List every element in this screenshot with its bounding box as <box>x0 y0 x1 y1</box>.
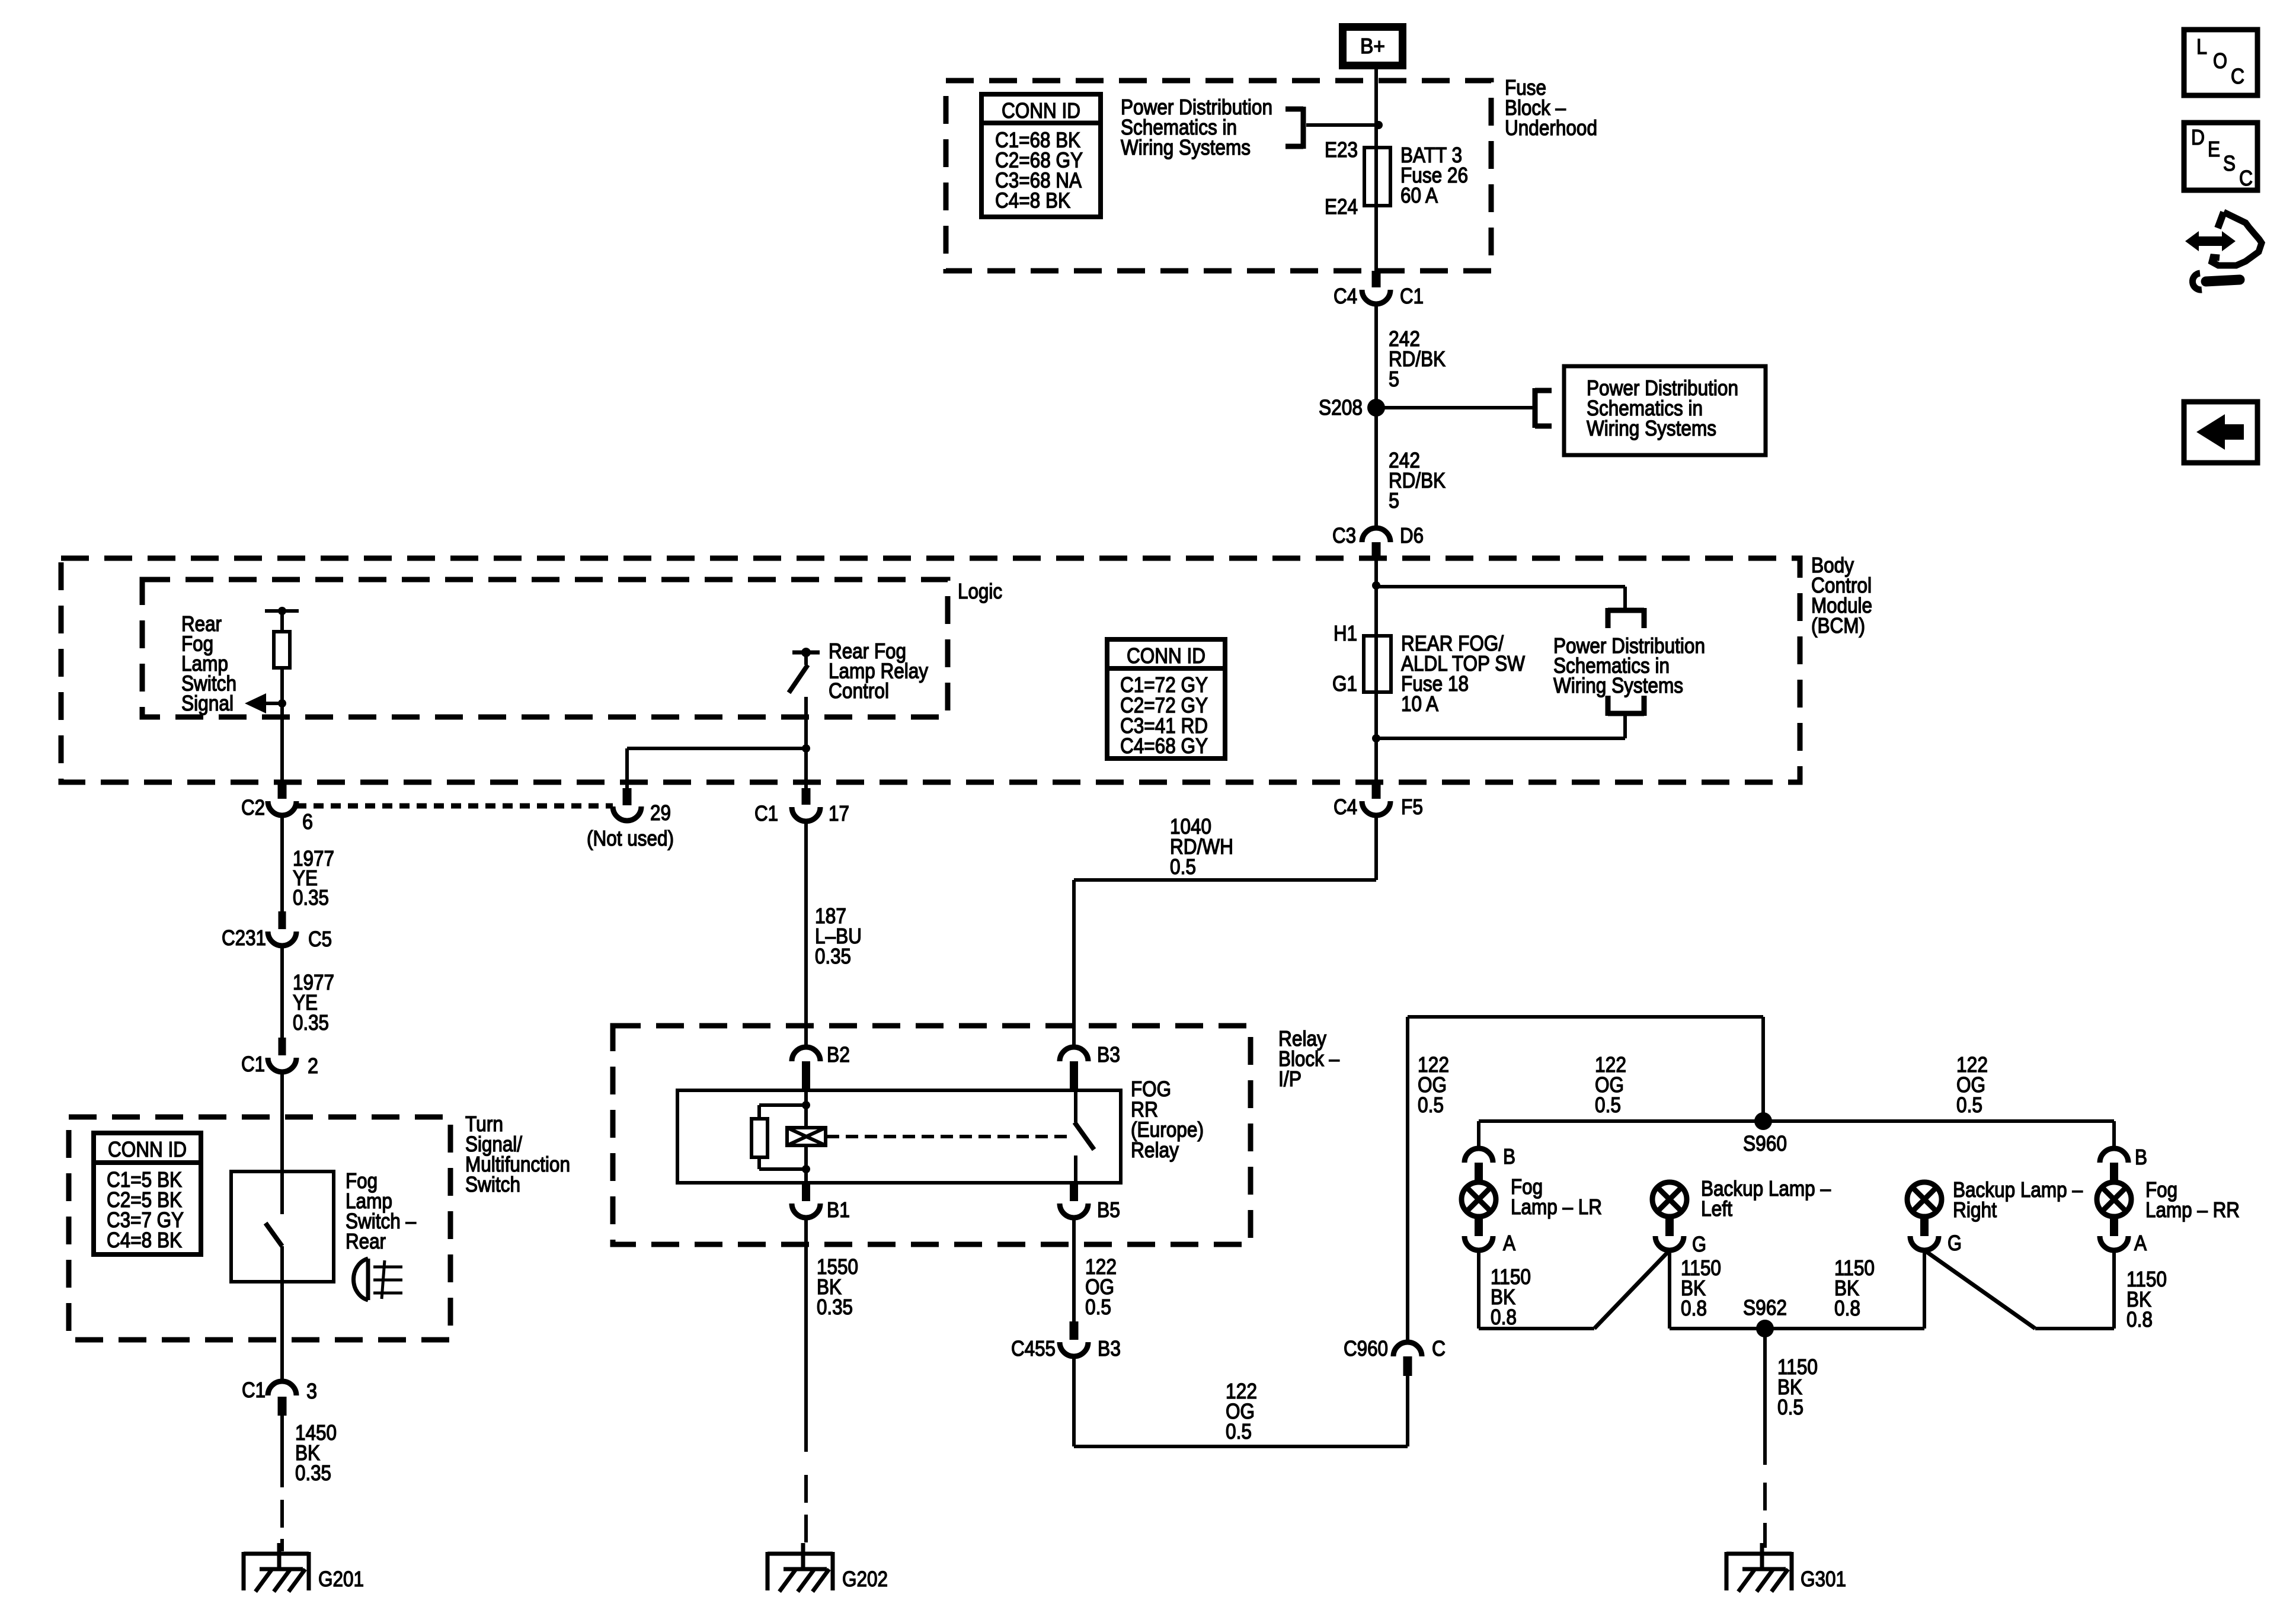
svg-text:G: G <box>1948 1231 1962 1255</box>
svg-text:Right: Right <box>1953 1198 1997 1222</box>
svg-text:B2: B2 <box>827 1042 850 1067</box>
svg-text:(BCM): (BCM) <box>1811 613 1865 638</box>
svg-text:F5: F5 <box>1401 795 1423 819</box>
svg-text:C4=8 BK: C4=8 BK <box>107 1228 182 1252</box>
svg-text:C4=68 GY: C4=68 GY <box>1120 734 1208 758</box>
svg-text:Wiring Systems: Wiring Systems <box>1553 673 1683 697</box>
svg-text:G: G <box>1692 1232 1706 1256</box>
svg-text:B: B <box>2135 1145 2147 1169</box>
svg-text:B+: B+ <box>1360 34 1385 58</box>
svg-text:Underhood: Underhood <box>1505 116 1597 140</box>
svg-text:CONN ID: CONN ID <box>108 1137 187 1161</box>
svg-text:C1: C1 <box>241 1052 265 1076</box>
svg-text:L: L <box>2196 34 2207 59</box>
svg-text:C1: C1 <box>242 1378 266 1402</box>
svg-text:C4: C4 <box>1334 795 1357 819</box>
svg-text:0.8: 0.8 <box>1681 1296 1707 1320</box>
svg-text:S208: S208 <box>1319 395 1363 420</box>
svg-text:0.8: 0.8 <box>1834 1296 1860 1320</box>
svg-text:Wiring Systems: Wiring Systems <box>1587 416 1716 440</box>
svg-text:C1: C1 <box>754 801 778 825</box>
svg-text:D: D <box>2191 125 2205 149</box>
svg-text:C: C <box>2239 166 2253 190</box>
svg-text:G1: G1 <box>1332 671 1357 696</box>
svg-text:C4=8 BK: C4=8 BK <box>995 188 1070 213</box>
svg-text:C2: C2 <box>241 795 265 820</box>
svg-text:A: A <box>1503 1231 1515 1255</box>
svg-text:C: C <box>1432 1336 1446 1361</box>
svg-text:Control: Control <box>829 678 889 703</box>
svg-text:D6: D6 <box>1400 523 1424 548</box>
svg-text:0.5: 0.5 <box>1418 1093 1444 1117</box>
svg-text:G201: G201 <box>318 1567 364 1591</box>
svg-text:0.8: 0.8 <box>2126 1307 2153 1331</box>
svg-text:C960: C960 <box>1344 1336 1388 1361</box>
svg-text:0.5: 0.5 <box>1956 1093 1982 1117</box>
svg-text:C231: C231 <box>222 926 266 950</box>
svg-text:Lamp – LR: Lamp – LR <box>1511 1195 1602 1219</box>
svg-text:E24: E24 <box>1325 194 1358 219</box>
svg-text:3: 3 <box>306 1379 317 1403</box>
svg-text:5: 5 <box>1389 488 1399 513</box>
svg-text:C1: C1 <box>1400 284 1424 308</box>
svg-text:Rear: Rear <box>346 1229 386 1253</box>
svg-text:B3: B3 <box>1097 1042 1120 1067</box>
svg-text:Switch: Switch <box>465 1172 520 1196</box>
svg-text:0.5: 0.5 <box>1085 1295 1111 1319</box>
svg-text:0.35: 0.35 <box>293 885 329 910</box>
svg-text:C3: C3 <box>1332 523 1356 548</box>
svg-text:0.5: 0.5 <box>1595 1093 1621 1117</box>
svg-text:H1: H1 <box>1334 621 1357 645</box>
svg-text:Signal: Signal <box>181 691 234 715</box>
svg-text:6: 6 <box>302 809 313 834</box>
svg-text:A: A <box>2134 1231 2147 1255</box>
svg-text:B: B <box>1503 1144 1515 1169</box>
svg-text:10 A: 10 A <box>1401 692 1438 716</box>
svg-text:Logic: Logic <box>958 579 1002 603</box>
svg-text:S: S <box>2223 151 2236 175</box>
svg-text:C5: C5 <box>308 927 332 951</box>
svg-text:(Not used): (Not used) <box>587 826 674 850</box>
svg-text:Lamp – RR: Lamp – RR <box>2145 1198 2240 1222</box>
svg-text:2: 2 <box>308 1054 318 1078</box>
svg-text:0.5: 0.5 <box>1226 1419 1252 1443</box>
svg-text:G301: G301 <box>1801 1567 1846 1591</box>
svg-text:0.8: 0.8 <box>1491 1305 1517 1329</box>
svg-text:Wiring Systems: Wiring Systems <box>1121 135 1251 159</box>
svg-text:G202: G202 <box>842 1567 888 1591</box>
svg-text:17: 17 <box>829 801 849 825</box>
svg-text:C: C <box>2231 64 2244 88</box>
svg-text:C4: C4 <box>1334 284 1357 308</box>
svg-text:Left: Left <box>1701 1196 1732 1221</box>
svg-text:0.35: 0.35 <box>295 1461 331 1485</box>
svg-text:0.5: 0.5 <box>1777 1395 1803 1419</box>
svg-text:B1: B1 <box>827 1198 850 1222</box>
svg-text:0.5: 0.5 <box>1170 854 1196 879</box>
svg-text:E: E <box>2208 137 2220 161</box>
svg-text:S960: S960 <box>1743 1131 1787 1156</box>
svg-text:C455: C455 <box>1011 1336 1056 1361</box>
svg-text:5: 5 <box>1389 367 1399 391</box>
svg-text:0.35: 0.35 <box>293 1010 329 1035</box>
svg-text:CONN ID: CONN ID <box>1002 98 1080 123</box>
svg-text:O: O <box>2213 49 2227 73</box>
svg-text:0.35: 0.35 <box>817 1295 853 1319</box>
svg-text:S962: S962 <box>1743 1295 1787 1320</box>
svg-text:B3: B3 <box>1098 1336 1121 1361</box>
svg-text:Relay: Relay <box>1131 1138 1179 1162</box>
svg-text:0.35: 0.35 <box>815 944 851 968</box>
svg-text:B5: B5 <box>1097 1198 1120 1222</box>
svg-text:I/P: I/P <box>1278 1067 1302 1091</box>
svg-text:E23: E23 <box>1325 137 1358 162</box>
svg-text:CONN ID: CONN ID <box>1127 644 1205 668</box>
svg-text:29: 29 <box>650 801 671 825</box>
svg-text:60 A: 60 A <box>1400 183 1438 207</box>
